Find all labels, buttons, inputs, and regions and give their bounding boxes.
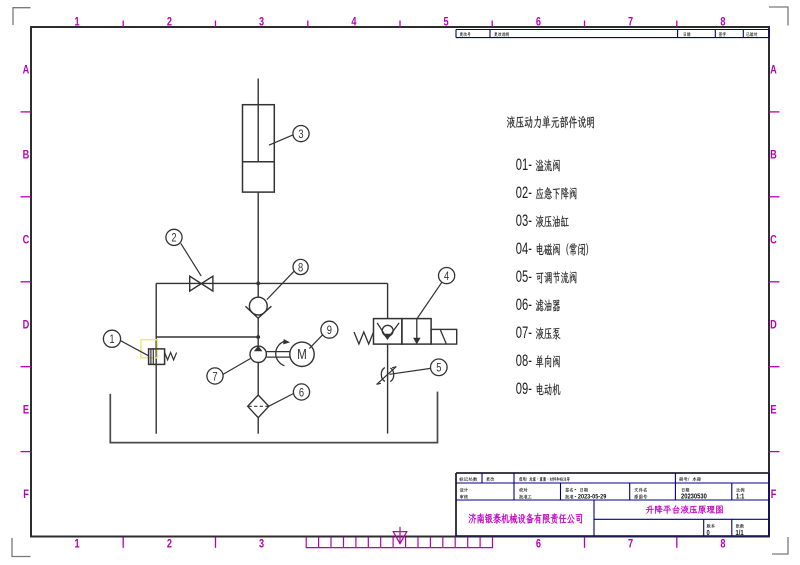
svg-text:7: 7: [628, 17, 633, 29]
svg-text:5: 5: [436, 362, 441, 375]
svg-text:6: 6: [536, 538, 541, 550]
svg-text:0: 0: [707, 529, 711, 537]
svg-text:D: D: [770, 320, 777, 332]
svg-text:C: C: [23, 235, 30, 247]
svg-text:3: 3: [259, 538, 264, 550]
svg-text:M: M: [297, 346, 307, 363]
svg-text:06-: 06-: [516, 295, 532, 314]
svg-text:05-: 05-: [516, 267, 532, 286]
svg-text:C: C: [770, 235, 777, 247]
svg-text:2: 2: [167, 17, 172, 29]
svg-text:A: A: [770, 65, 777, 77]
svg-text:1/1: 1/1: [736, 529, 744, 537]
svg-text:02-: 02-: [516, 183, 532, 202]
svg-text:03-: 03-: [516, 211, 532, 230]
svg-text:04-: 04-: [516, 239, 532, 258]
svg-text:A: A: [23, 65, 30, 77]
svg-text:08-: 08-: [516, 351, 532, 370]
svg-text:B: B: [23, 150, 30, 162]
svg-text:F: F: [23, 489, 29, 501]
svg-text:1: 1: [109, 333, 114, 346]
svg-text:B: B: [770, 150, 777, 162]
svg-text:E: E: [23, 404, 29, 416]
svg-text:8: 8: [720, 17, 725, 29]
svg-text:5: 5: [444, 17, 449, 29]
svg-text:- 2023-05-29: - 2023-05-29: [575, 493, 607, 501]
svg-text:E: E: [770, 404, 776, 416]
svg-text:2: 2: [171, 232, 176, 245]
svg-text:9: 9: [327, 324, 332, 337]
svg-text:6: 6: [536, 17, 541, 29]
svg-text:4: 4: [351, 17, 356, 29]
svg-text:1: 1: [75, 538, 80, 550]
svg-text:8: 8: [298, 261, 303, 274]
svg-text:7: 7: [628, 538, 633, 550]
svg-text:2: 2: [167, 538, 172, 550]
svg-text:20230530: 20230530: [681, 493, 707, 501]
svg-text:3: 3: [259, 17, 264, 29]
svg-text:8: 8: [720, 538, 725, 550]
svg-text:3: 3: [298, 128, 303, 141]
svg-text:07-: 07-: [516, 323, 532, 342]
svg-text:1: 1: [75, 17, 80, 29]
svg-text:4: 4: [444, 270, 449, 283]
svg-text:F: F: [771, 489, 777, 501]
svg-text:6: 6: [299, 386, 304, 399]
svg-text:01-: 01-: [516, 155, 532, 174]
svg-text:D: D: [23, 320, 30, 332]
svg-text:1:1: 1:1: [736, 493, 745, 501]
svg-text:7: 7: [212, 370, 217, 383]
svg-text:09-: 09-: [516, 379, 532, 398]
